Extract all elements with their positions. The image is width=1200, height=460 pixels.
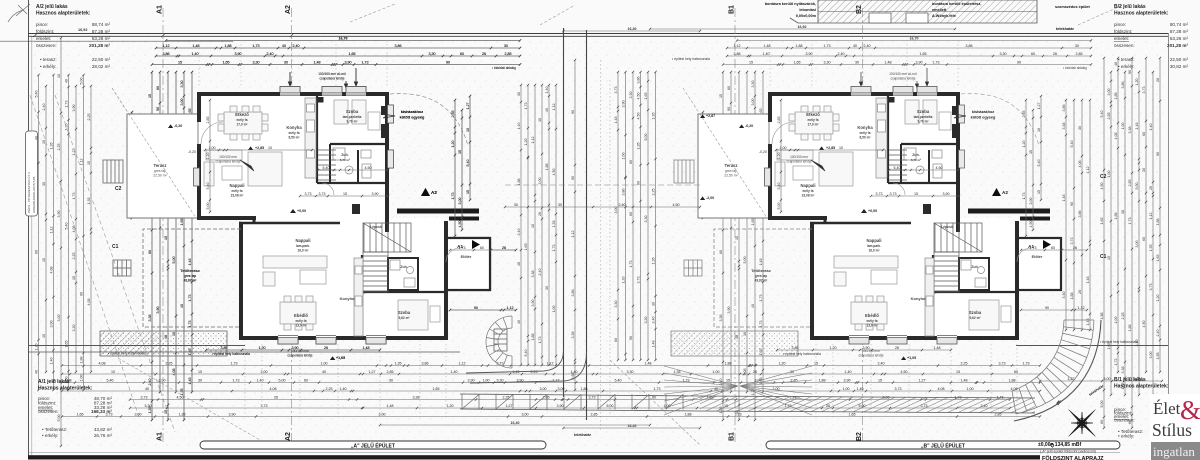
svg-text:1,65: 1,65 bbox=[1156, 255, 1160, 262]
interior wall kitchen lower bbox=[361, 255, 363, 338]
diagonal hatch on ground left part bbox=[100, 331, 158, 356]
svg-text:4,08: 4,08 bbox=[938, 387, 945, 391]
svg-text:2,25: 2,25 bbox=[1121, 313, 1125, 320]
interior wall szoba bottom bbox=[330, 143, 387, 145]
interior dim row bbox=[317, 166, 389, 171]
svg-text:3,73: 3,73 bbox=[637, 277, 641, 284]
svg-text:1,88: 1,88 bbox=[1009, 379, 1016, 383]
svg-text:88,74 m²: 88,74 m² bbox=[92, 22, 111, 27]
svg-text:1,20: 1,20 bbox=[447, 404, 454, 408]
left local dim column 5 bbox=[180, 71, 185, 421]
svg-text:1,88: 1,88 bbox=[1114, 93, 1118, 100]
svg-text:60: 60 bbox=[629, 160, 633, 164]
middle dim column left cluster 4 bbox=[538, 84, 543, 366]
window, bottom wall x=316 bbox=[316, 335, 336, 344]
svg-text:3,30: 3,30 bbox=[629, 92, 633, 99]
svg-text:4,50: 4,50 bbox=[1100, 183, 1104, 190]
svg-text:60: 60 bbox=[629, 212, 633, 216]
dashed diagonal top 2 bbox=[540, 5, 575, 25]
svg-text:1,73: 1,73 bbox=[65, 101, 69, 108]
svg-text:1,00: 1,00 bbox=[80, 375, 84, 382]
door swing interior 1 bbox=[322, 183, 334, 195]
svg-text:30: 30 bbox=[1142, 168, 1146, 172]
svg-text:4,50: 4,50 bbox=[552, 169, 556, 176]
svg-text:3,90: 3,90 bbox=[57, 211, 61, 218]
left local dim column 2 bbox=[156, 71, 161, 393]
svg-text:ingatlan: ingatlan bbox=[1153, 444, 1195, 459]
bottom dim row 6 bbox=[129, 404, 1011, 409]
svg-text:2,40: 2,40 bbox=[652, 317, 656, 324]
svg-text:2,25: 2,25 bbox=[652, 189, 656, 196]
middle dim column right cluster 6 bbox=[652, 71, 657, 361]
right edge dim column 7 bbox=[1142, 57, 1147, 373]
svg-text:1,00: 1,00 bbox=[713, 370, 720, 374]
svg-text:3,00: 3,00 bbox=[540, 387, 547, 391]
svg-text:2,25: 2,25 bbox=[57, 144, 61, 151]
dotted ground hatch bbox=[100, 331, 227, 356]
svg-text:3,86: 3,86 bbox=[637, 77, 641, 84]
window, top wall x=280 bbox=[280, 87, 300, 96]
window, bottom wall x=278 bbox=[278, 335, 298, 344]
dashed diagonal bottom left bbox=[118, 358, 260, 440]
svg-text:• erkély:: • erkély: bbox=[1118, 64, 1134, 69]
side dim row bbox=[449, 246, 517, 251]
svg-text:40: 40 bbox=[538, 118, 542, 122]
interior dim row living bbox=[204, 146, 313, 151]
svg-text:lebontási: lebontási bbox=[799, 8, 816, 12]
svg-text:Hasznos alapterületek:: Hasznos alapterületek: bbox=[1114, 11, 1169, 17]
svg-text:90: 90 bbox=[571, 110, 575, 114]
roof terrace dashed outline bbox=[143, 229, 241, 327]
svg-text:1,48: 1,48 bbox=[614, 117, 618, 124]
grid axis A1 bbox=[157, 5, 164, 444]
svg-text:80,74 m²: 80,74 m² bbox=[1170, 22, 1189, 27]
svg-text:1,40: 1,40 bbox=[857, 387, 864, 391]
upper unit left wall bbox=[197, 92, 201, 220]
door swing terrace bbox=[201, 122, 223, 144]
middle top overall dim bbox=[562, 27, 701, 32]
svg-text:• építési hely határvonala: • építési hely határvonala bbox=[672, 57, 710, 61]
road band left: stepped ladder bbox=[460, 394, 700, 411]
svg-text:összesen:: összesen: bbox=[1114, 43, 1135, 48]
middle dim column right cluster 2 bbox=[622, 71, 627, 361]
svg-text:HIDEGBURKOLATOS STB: HIDEGBURKOLATOS STB bbox=[32, 177, 36, 213]
right inner dim column 3 bbox=[1078, 99, 1083, 331]
svg-text:A2: A2 bbox=[285, 5, 292, 14]
upper unit right wall bbox=[385, 92, 389, 232]
middle dim column left cluster 3 bbox=[531, 84, 536, 366]
svg-text:1,35: 1,35 bbox=[87, 198, 91, 205]
svg-text:B/2 jelű lakás: B/2 jelű lakás bbox=[1114, 4, 1146, 10]
svg-text:4,50: 4,50 bbox=[901, 370, 908, 374]
svg-text:3,90: 3,90 bbox=[557, 404, 564, 408]
svg-text:1,48: 1,48 bbox=[1062, 195, 1066, 202]
page border right bbox=[1168, 33, 1170, 455]
right edge dim column 3 bbox=[1114, 57, 1119, 373]
right inner dim column 1 bbox=[1062, 99, 1067, 331]
witness dotted verticals to bottom rows bbox=[199, 40, 1017, 420]
upper unit floor (white underlay) bbox=[199, 94, 387, 218]
svg-text:3,30: 3,30 bbox=[627, 370, 634, 374]
svg-text:emellett: emellett bbox=[932, 8, 947, 12]
svg-text:• építési hely határvonala: • építési hely határvonala bbox=[108, 352, 146, 356]
svg-text:Hasznos alapterületek:: Hasznos alapterületek: bbox=[38, 386, 93, 392]
svg-text:pince:: pince: bbox=[1114, 22, 1126, 27]
svg-text:3,38: 3,38 bbox=[1062, 123, 1066, 130]
svg-text:Stílus: Stílus bbox=[1152, 420, 1192, 440]
svg-text:3,30: 3,30 bbox=[145, 404, 152, 408]
right wall shaft blocks bbox=[381, 106, 387, 115]
svg-text:3,00: 3,00 bbox=[538, 178, 542, 185]
svg-text:40: 40 bbox=[65, 79, 69, 83]
svg-text:1,40: 1,40 bbox=[845, 370, 852, 374]
left edge dim column 7 bbox=[80, 74, 85, 391]
svg-text:földszint:: földszint: bbox=[1114, 29, 1132, 34]
svg-text:1,40: 1,40 bbox=[340, 387, 347, 391]
svg-text:4,50: 4,50 bbox=[673, 203, 680, 207]
svg-text:emelet:: emelet: bbox=[1114, 36, 1129, 41]
svg-text:1,20: 1,20 bbox=[35, 344, 39, 351]
svg-text:10: 10 bbox=[1107, 256, 1111, 260]
svg-text:1,00: 1,00 bbox=[552, 306, 556, 313]
middle dim column right cluster 5 bbox=[644, 71, 649, 361]
svg-text:4,50: 4,50 bbox=[1142, 321, 1146, 328]
svg-text:• terasz:: • terasz: bbox=[1118, 57, 1135, 62]
svg-text:2,85: 2,85 bbox=[387, 370, 394, 374]
svg-text:43,82 m²: 43,82 m² bbox=[94, 427, 113, 432]
interior wall bath bbox=[330, 144, 358, 183]
svg-text:1,35: 1,35 bbox=[637, 143, 641, 150]
interior wall hall bbox=[317, 182, 387, 184]
svg-text:1,88: 1,88 bbox=[80, 357, 84, 364]
svg-text:2,40: 2,40 bbox=[517, 229, 521, 236]
svg-text:3,00: 3,00 bbox=[1135, 241, 1139, 248]
right edge dim column 5 bbox=[1128, 57, 1133, 429]
svg-text:90: 90 bbox=[1070, 202, 1074, 206]
dotted vertical mid 2 bbox=[609, 80, 611, 415]
svg-text:3,73: 3,73 bbox=[589, 396, 596, 400]
side dim row 2 bbox=[449, 306, 517, 311]
svg-text:60: 60 bbox=[652, 396, 656, 400]
svg-text:A/2 jelű lakás: A/2 jelű lakás bbox=[36, 4, 68, 10]
pencil check mark top-left bbox=[8, 4, 30, 22]
right inner dim column 2 bbox=[1070, 99, 1075, 331]
bottom dim row 7 bbox=[61, 413, 1041, 418]
svg-text:60: 60 bbox=[1142, 237, 1146, 241]
svg-text:1,48: 1,48 bbox=[1086, 277, 1090, 284]
svg-text:1,12: 1,12 bbox=[80, 159, 84, 166]
svg-text:15: 15 bbox=[87, 161, 91, 165]
svg-text:C2: C2 bbox=[115, 186, 122, 192]
sofa set living room lower bbox=[263, 256, 327, 286]
svg-text:40: 40 bbox=[517, 320, 521, 324]
svg-text:2,25: 2,25 bbox=[326, 387, 333, 391]
svg-text:26,76 m²: 26,76 m² bbox=[94, 433, 113, 438]
svg-text:3,73: 3,73 bbox=[895, 387, 902, 391]
svg-text:3,90: 3,90 bbox=[229, 413, 236, 417]
door swing interior 2 bbox=[359, 292, 370, 303]
svg-text:1,40: 1,40 bbox=[451, 370, 458, 374]
svg-text:3,73: 3,73 bbox=[1142, 87, 1146, 94]
svg-text:201,28 m²: 201,28 m² bbox=[89, 43, 110, 48]
svg-text:15: 15 bbox=[956, 370, 960, 374]
dotted vertical mid 1 bbox=[600, 60, 602, 430]
page border left bbox=[28, 0, 30, 456]
svg-text:1,00: 1,00 bbox=[843, 387, 850, 391]
right side vertical dim 3 bbox=[458, 109, 463, 231]
svg-text:• terasz:: • terasz: bbox=[40, 57, 57, 62]
service shaft block bbox=[318, 97, 324, 103]
svg-text:5,40: 5,40 bbox=[1070, 141, 1074, 148]
leader arrow bbox=[240, 160, 254, 171]
dashed diagonal top 1 bbox=[350, 4, 395, 22]
svg-text:3,38: 3,38 bbox=[1121, 367, 1125, 374]
svg-text:4,08: 4,08 bbox=[99, 362, 106, 366]
svg-text:30: 30 bbox=[517, 92, 521, 96]
kitchen counter upper bbox=[305, 98, 316, 178]
svg-text:3,00: 3,00 bbox=[57, 315, 61, 322]
left edge dim column 3 bbox=[50, 74, 55, 391]
svg-text:3,86: 3,86 bbox=[622, 189, 626, 196]
window, left wall bbox=[194, 168, 200, 186]
svg-text:1,65: 1,65 bbox=[65, 341, 69, 348]
svg-text:2,25: 2,25 bbox=[166, 362, 173, 366]
middle dim column left cluster 6 bbox=[552, 84, 557, 366]
svg-text:1,12: 1,12 bbox=[531, 137, 535, 144]
lower unit left wall bbox=[239, 222, 243, 340]
svg-text:15: 15 bbox=[878, 379, 882, 383]
svg-text:1,73: 1,73 bbox=[552, 245, 556, 252]
left property line 1 bbox=[28, 345, 245, 347]
svg-text:1,40: 1,40 bbox=[1149, 124, 1153, 131]
separator line above title bar bbox=[28, 452, 1120, 454]
elevation -0,20 terrace bbox=[168, 124, 182, 128]
svg-text:3,00: 3,00 bbox=[135, 413, 142, 417]
svg-text:2,85: 2,85 bbox=[1107, 113, 1111, 120]
bottom dim row 5 bbox=[129, 396, 1011, 401]
left edge dim column 4 bbox=[57, 37, 62, 447]
svg-text:2,40: 2,40 bbox=[1156, 330, 1160, 337]
svg-text:53,26 m²: 53,26 m² bbox=[1170, 36, 1189, 41]
svg-text:2,40: 2,40 bbox=[538, 269, 542, 276]
svg-text:B1: B1 bbox=[729, 432, 736, 441]
svg-text:A/1 jelű lakás: A/1 jelű lakás bbox=[38, 379, 70, 385]
entry door swing bbox=[446, 248, 460, 262]
svg-text:30: 30 bbox=[558, 203, 562, 207]
svg-text:• építési hely határvonala: • építési hely határvonala bbox=[1100, 340, 1138, 344]
svg-text:30: 30 bbox=[514, 203, 518, 207]
svg-text:40: 40 bbox=[545, 108, 549, 112]
property line rounded corners bbox=[466, 350, 587, 383]
demolition hatch strip top bbox=[790, 0, 1037, 23]
grid axis B2 bbox=[856, 5, 863, 444]
terrace door opening bbox=[197, 122, 202, 144]
top overall dim above hatch bbox=[649, 25, 956, 30]
svg-text:2,25: 2,25 bbox=[531, 370, 538, 374]
svg-text:összesen:: összesen: bbox=[38, 409, 59, 414]
svg-text:1,88: 1,88 bbox=[531, 334, 535, 341]
svg-text:1,65: 1,65 bbox=[524, 244, 528, 251]
svg-text:3,86: 3,86 bbox=[1121, 82, 1125, 89]
svg-text:1,65: 1,65 bbox=[433, 387, 440, 391]
svg-text:1,73: 1,73 bbox=[524, 103, 528, 110]
left local dim column 6 bbox=[188, 71, 193, 393]
svg-text:1,88: 1,88 bbox=[1070, 293, 1074, 300]
leader arrows to windows bbox=[288, 68, 357, 88]
svg-text:26: 26 bbox=[753, 370, 757, 374]
elevation +2,00 middle bbox=[700, 114, 715, 118]
upper unit bottom-left wall bbox=[197, 216, 256, 220]
entry extension walls bbox=[446, 238, 490, 290]
svg-text:5,00: 5,00 bbox=[279, 379, 286, 383]
svg-text:2,40: 2,40 bbox=[619, 203, 626, 207]
svg-text:15: 15 bbox=[726, 379, 730, 383]
svg-text:1,48: 1,48 bbox=[652, 341, 656, 348]
elevation +2,85 bbox=[248, 146, 264, 150]
svg-text:3,90: 3,90 bbox=[468, 379, 475, 383]
svg-text:3,86: 3,86 bbox=[422, 362, 429, 366]
middle bottom overall dim bbox=[562, 424, 701, 429]
svg-text:+2,87: +2,87 bbox=[706, 114, 715, 118]
svg-text:60: 60 bbox=[1014, 370, 1018, 374]
svg-text:3,30: 3,30 bbox=[644, 216, 648, 223]
svg-text:30: 30 bbox=[198, 379, 202, 383]
svg-text:5,40: 5,40 bbox=[1100, 111, 1104, 118]
outdoor stair block lower bbox=[113, 260, 131, 276]
flue block bbox=[352, 204, 360, 214]
svg-text:16,40: 16,40 bbox=[511, 421, 520, 425]
left diagonal dashed boundary bbox=[30, 95, 140, 420]
svg-text:90: 90 bbox=[629, 336, 633, 340]
svg-text:60: 60 bbox=[304, 379, 308, 383]
svg-text:földszint:: földszint: bbox=[36, 29, 54, 34]
svg-text:87,28 m²: 87,28 m² bbox=[1170, 29, 1189, 34]
svg-text:10: 10 bbox=[531, 224, 535, 228]
svg-text:3,00: 3,00 bbox=[379, 413, 386, 417]
svg-text:• erkély:: • erkély: bbox=[1118, 434, 1134, 439]
svg-text:telekhatár: telekhatár bbox=[574, 433, 592, 437]
diagonal dashed sight line bbox=[112, 88, 196, 218]
middle heavy line 2 bbox=[586, 30, 588, 420]
interior wall kitchen/dining bbox=[316, 95, 318, 183]
svg-text:3,00: 3,00 bbox=[522, 413, 529, 417]
svg-text:1,65: 1,65 bbox=[1100, 218, 1104, 225]
svg-text:90: 90 bbox=[571, 176, 575, 180]
svg-text:1,40: 1,40 bbox=[257, 379, 264, 383]
grid axis A2 bbox=[285, 5, 292, 444]
svg-text:15: 15 bbox=[42, 258, 46, 262]
svg-text:3,86: 3,86 bbox=[1078, 211, 1082, 218]
svg-text:4,08: 4,08 bbox=[87, 299, 91, 306]
right edge dim column 9 bbox=[1156, 57, 1161, 373]
svg-text:1,88: 1,88 bbox=[725, 362, 732, 366]
lower unit top wall bbox=[239, 222, 340, 225]
text block flat B/1 areas bbox=[1114, 377, 1180, 439]
terrace height dim bbox=[128, 111, 133, 219]
bottom dim row 4 bbox=[61, 387, 1041, 392]
svg-text:1,35: 1,35 bbox=[652, 258, 656, 265]
svg-text:1,00: 1,00 bbox=[483, 379, 490, 383]
window sill right wall upper bbox=[388, 105, 394, 123]
compass rose (north arrow) bbox=[1049, 398, 1095, 449]
svg-text:1,00: 1,00 bbox=[622, 153, 626, 160]
svg-text:4,50: 4,50 bbox=[637, 113, 641, 120]
heavy wall mid (balcony edge) bbox=[397, 209, 479, 214]
top datum line 2 bbox=[28, 35, 1168, 37]
svg-text:3,00: 3,00 bbox=[558, 387, 565, 391]
small curved band left of middle bbox=[486, 316, 512, 368]
svg-text:90: 90 bbox=[1156, 152, 1160, 156]
svg-text:3,00: 3,00 bbox=[1107, 89, 1111, 96]
text block flat B/2 areas bbox=[1114, 4, 1188, 69]
svg-text:3,30: 3,30 bbox=[644, 317, 648, 324]
svg-text:1,00: 1,00 bbox=[321, 362, 328, 366]
svg-text:30: 30 bbox=[42, 182, 46, 186]
svg-text:5,00: 5,00 bbox=[57, 415, 61, 422]
svg-text:1,12: 1,12 bbox=[553, 379, 560, 383]
svg-text:Élet: Élet bbox=[1153, 399, 1181, 418]
svg-text:40: 40 bbox=[35, 370, 39, 374]
svg-text:40: 40 bbox=[517, 262, 521, 266]
svg-text:1,73: 1,73 bbox=[629, 261, 633, 268]
svg-text:1,40: 1,40 bbox=[545, 87, 549, 94]
svg-text:60: 60 bbox=[35, 250, 39, 254]
svg-text:40: 40 bbox=[42, 334, 46, 338]
slope arrow fan left bbox=[664, 366, 812, 415]
building unit plan (reused for both buildings) bbox=[100, 36, 521, 421]
svg-text:A2: A2 bbox=[285, 432, 292, 441]
svg-text:16,40: 16,40 bbox=[628, 27, 637, 31]
svg-text:• erkély:: • erkély: bbox=[40, 64, 56, 69]
svg-text:2,25: 2,25 bbox=[503, 396, 510, 400]
dimension row 4 bbox=[151, 61, 521, 66]
svg-text:3,30: 3,30 bbox=[1062, 292, 1066, 299]
svg-text:3,30: 3,30 bbox=[614, 301, 618, 308]
svg-text:4,50: 4,50 bbox=[177, 396, 184, 400]
svg-text:16,92: 16,92 bbox=[798, 25, 807, 29]
svg-text:1,35: 1,35 bbox=[674, 370, 681, 374]
svg-text:1,12: 1,12 bbox=[459, 362, 466, 366]
label box building A bbox=[200, 441, 546, 449]
svg-text:1,65: 1,65 bbox=[1156, 353, 1160, 360]
svg-text:30: 30 bbox=[1121, 210, 1125, 214]
right edge dim column 8 bbox=[1149, 71, 1154, 396]
svg-text:1,73: 1,73 bbox=[231, 362, 238, 366]
dashed diagonal top 3 bbox=[1078, 4, 1125, 25]
bed szoba lower bbox=[398, 300, 440, 330]
left local dim column 1 bbox=[148, 71, 153, 421]
svg-text:PÉCS - PP KERESZTES ÚT 3: PÉCS - PP KERESZTES ÚT 3 bbox=[26, 172, 31, 213]
interior wall szoba lower bbox=[362, 291, 446, 293]
svg-text:15: 15 bbox=[198, 370, 202, 374]
svg-text:3,73: 3,73 bbox=[735, 413, 742, 417]
window, top wall x=322 bbox=[322, 87, 342, 96]
dashed swing arc NE corner bbox=[390, 94, 468, 146]
svg-text:4,08: 4,08 bbox=[50, 267, 54, 274]
svg-text:3,00: 3,00 bbox=[1149, 352, 1153, 359]
left diagonal dashed boundary 2 bbox=[55, 95, 175, 432]
right property line bbox=[1016, 345, 1168, 347]
svg-text:4,50: 4,50 bbox=[637, 93, 641, 100]
road band right with hatch bbox=[700, 396, 1035, 413]
small stair upper bbox=[318, 150, 336, 180]
bottom dim row 3 bbox=[61, 379, 1041, 384]
left local dim column 3 bbox=[164, 71, 169, 421]
svg-text:5,00: 5,00 bbox=[644, 134, 648, 141]
svg-text:A1: A1 bbox=[157, 5, 164, 14]
middle horizontal dim bbox=[504, 203, 701, 208]
svg-text:87,28 m²: 87,28 m² bbox=[92, 29, 111, 34]
